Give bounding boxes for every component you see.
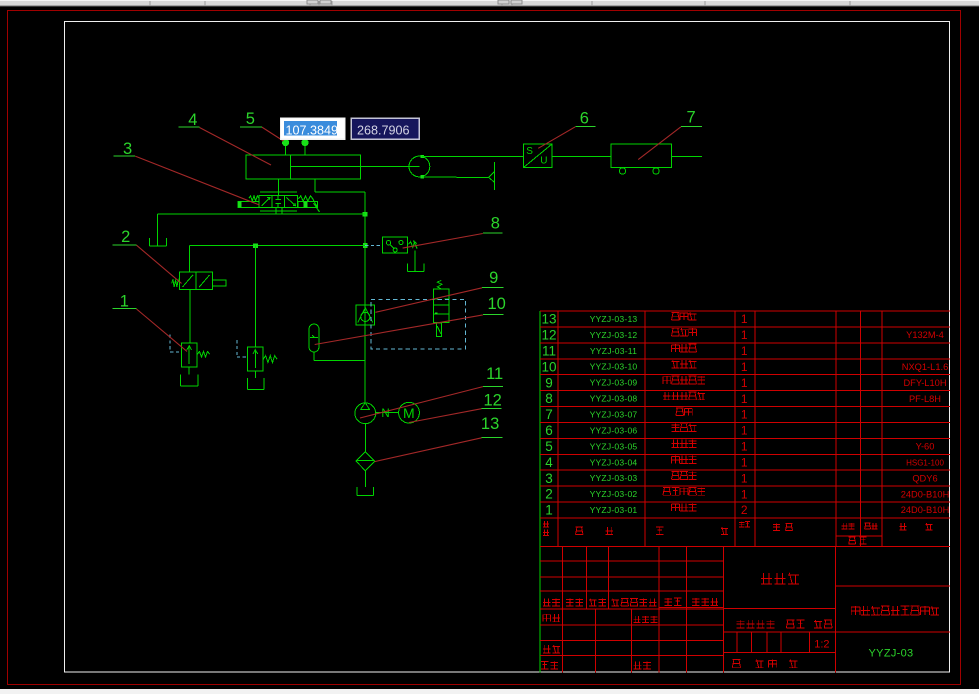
cylinder port grip dot A (item 5 sensor)	[283, 140, 289, 156]
label 7 leader	[638, 127, 681, 160]
svg-text:YYZJ-03: YYZJ-03	[869, 647, 914, 659]
relief valve V1b	[248, 347, 264, 371]
belt top line to right	[422, 155, 702, 157]
oil filter (item 13)	[356, 452, 375, 471]
table row 11	[542, 343, 748, 358]
svg-text:U: U	[540, 155, 547, 166]
parts table grid	[540, 311, 950, 547]
filter tank drop	[364, 471, 366, 487]
svg-text:1: 1	[741, 424, 748, 438]
svg-text:2: 2	[121, 228, 130, 246]
svg-text:QDY6: QDY6	[912, 473, 937, 483]
svg-text:YYZJ-03-12: YYZJ-03-12	[590, 330, 638, 340]
svg-text:Y132M-4: Y132M-4	[906, 330, 944, 340]
title block left texts	[541, 598, 724, 669]
svg-text:11: 11	[542, 343, 556, 358]
svg-text:268.7906: 268.7906	[357, 124, 410, 138]
svg-text:1: 1	[741, 408, 748, 422]
drawing title text	[851, 606, 860, 615]
valve V2 spring	[172, 280, 180, 287]
label 1	[113, 293, 137, 311]
svg-text:5: 5	[545, 439, 553, 454]
svg-text:1: 1	[741, 328, 748, 342]
hydraulic cylinder C (item 4) body	[246, 155, 361, 179]
table row 4	[545, 455, 944, 470]
svg-text:24D0-B10H: 24D0-B10H	[901, 505, 950, 515]
accumulator drop	[313, 352, 315, 360]
svg-text:7: 7	[545, 407, 553, 422]
V1 tank drop	[188, 367, 190, 375]
status strip (bottom)	[0, 689, 979, 694]
label 4 leader	[200, 128, 272, 166]
relay plunger and seat	[407, 251, 424, 272]
junction dot J3	[253, 243, 258, 248]
svg-text:YYZJ-03-10: YYZJ-03-10	[590, 362, 638, 372]
table row 13	[541, 312, 747, 327]
label 13 leader	[375, 438, 482, 462]
svg-text:NXQ1-L1.6: NXQ1-L1.6	[902, 362, 949, 372]
label 11 leader	[360, 387, 483, 418]
svg-text:YYZJ-03-04: YYZJ-03-04	[590, 457, 638, 467]
dynamic input box X value	[281, 118, 346, 139]
dashed enclosure box	[371, 299, 466, 349]
proportional relief valve (in dashed box)	[434, 289, 450, 323]
label 2 leader	[137, 245, 182, 283]
cylinder port grip dot B	[302, 140, 308, 156]
accumulator (item 10)	[309, 324, 319, 352]
svg-text:4: 4	[545, 455, 553, 470]
svg-text:1: 1	[741, 344, 748, 358]
svg-text:13: 13	[481, 415, 499, 433]
table row 1	[545, 503, 949, 518]
svg-text:N: N	[381, 408, 389, 420]
svg-text:YYZJ-03-02: YYZJ-03-02	[590, 489, 638, 499]
relay spring	[409, 240, 418, 248]
branch pipe (pilot line)	[189, 245, 365, 247]
table row 12	[541, 327, 943, 342]
svg-text:1: 1	[741, 455, 748, 469]
svg-text:10: 10	[488, 295, 506, 313]
label 6 leader	[538, 127, 575, 149]
title block grid	[540, 547, 950, 673]
valve right spring	[298, 196, 312, 201]
svg-text:5: 5	[246, 110, 255, 128]
svg-text:YYZJ-03-07: YYZJ-03-07	[590, 410, 638, 420]
hydraulic pump (item 11)	[355, 403, 376, 424]
svg-text:M: M	[403, 405, 415, 421]
svg-text:S: S	[526, 146, 533, 157]
V1 pilot dashed line	[170, 335, 181, 352]
label 2	[113, 228, 137, 246]
svg-text:1: 1	[741, 440, 748, 454]
svg-text:YYZJ-03-08: YYZJ-03-08	[590, 394, 638, 404]
svg-text:YYZJ-03-11: YYZJ-03-11	[590, 346, 637, 356]
svg-text:YYZJ-03-03: YYZJ-03-03	[590, 473, 638, 483]
main riser (pressure line)	[364, 192, 366, 403]
V1b pilot dashed line	[237, 340, 248, 357]
table row 5	[545, 439, 934, 454]
label 13	[481, 415, 502, 438]
svg-text:HSG1-100: HSG1-100	[906, 458, 944, 467]
svg-text:9: 9	[545, 375, 553, 390]
prop valve top spring	[437, 280, 442, 289]
svg-text:107.3849: 107.3849	[286, 124, 339, 138]
label 9 leader	[375, 288, 482, 313]
wire valve bottom stub b	[281, 208, 283, 215]
valve left solenoid	[238, 201, 259, 207]
prop valve lower body	[437, 323, 442, 337]
svg-text:PF-L8H: PF-L8H	[909, 394, 941, 404]
wire cylinder right port down	[314, 179, 316, 192]
sensor S/U box U6 (item 6)	[524, 144, 553, 168]
svg-text:1: 1	[741, 487, 748, 501]
label 1 leader	[137, 309, 188, 351]
tank symbol T2	[180, 375, 198, 387]
wire cylinder left port to valve	[278, 179, 280, 196]
table row 3	[545, 471, 937, 486]
svg-text:YYZJ-03-05: YYZJ-03-05	[590, 441, 638, 451]
relief valve V1 (item 1)	[182, 343, 198, 367]
shut-off valve V2 (item 2)	[180, 272, 226, 289]
svg-text:13: 13	[541, 312, 556, 327]
piston rod	[291, 166, 420, 168]
trolley box (item 7)	[611, 144, 672, 174]
electric motor M (item 12)	[399, 402, 420, 423]
svg-text:7: 7	[687, 109, 696, 127]
svg-text:4: 4	[188, 111, 197, 129]
svg-text:1: 1	[741, 376, 748, 390]
label 8	[483, 214, 503, 233]
junction dot J2	[363, 243, 368, 248]
label 7	[681, 109, 702, 127]
valve right solenoid	[298, 197, 320, 213]
svg-text:1: 1	[741, 471, 748, 485]
label 10	[483, 295, 506, 314]
svg-text:2: 2	[545, 487, 553, 502]
svg-text:2: 2	[741, 503, 748, 517]
svg-text:6: 6	[545, 423, 553, 438]
V1b tank drop	[254, 371, 256, 378]
wire valve bottom stub a	[275, 208, 277, 215]
label 12	[482, 392, 502, 410]
label 12 leader	[409, 409, 482, 423]
junction dot J1	[363, 212, 368, 217]
svg-text:1: 1	[545, 503, 553, 518]
V1 spring	[197, 351, 209, 357]
svg-text:Y-60: Y-60	[916, 442, 935, 452]
parts table left green border	[539, 311, 541, 673]
wire J3 down to relief valve V1b	[254, 246, 256, 348]
label 6	[575, 110, 595, 128]
label 8 leader	[403, 234, 483, 249]
title block middle texts	[732, 573, 832, 668]
label 9	[482, 269, 503, 288]
svg-text:24D0-B10H: 24D0-B10H	[901, 489, 950, 499]
svg-text:12: 12	[484, 392, 502, 410]
label 5	[240, 110, 262, 128]
svg-text:1: 1	[120, 293, 129, 311]
svg-text:1:2: 1:2	[814, 638, 829, 650]
pulley circle	[409, 155, 430, 179]
label 3	[114, 140, 136, 158]
svg-text:11: 11	[486, 365, 503, 383]
label 10 leader	[315, 315, 483, 345]
svg-text:12: 12	[541, 327, 556, 342]
table row 9	[545, 375, 946, 390]
svg-text:1: 1	[741, 312, 748, 326]
svg-text:YYZJ-03-01: YYZJ-03-01	[590, 505, 638, 515]
dynamic input box Y value	[351, 118, 419, 139]
wire right port to main riser	[315, 191, 365, 193]
pilot-operated check valve (item 9)	[356, 305, 375, 325]
toolbar strip (top window chrome)	[0, 0, 979, 7]
dashed pilot wire to pressure switch	[365, 245, 382, 247]
label 5 leader	[262, 127, 284, 141]
svg-text:10: 10	[541, 359, 556, 374]
svg-text:9: 9	[489, 269, 498, 287]
svg-text:6: 6	[580, 110, 589, 128]
label 4	[179, 111, 200, 129]
label 11	[483, 365, 503, 386]
svg-text:1: 1	[741, 392, 748, 406]
svg-text:YYZJ-03-13: YYZJ-03-13	[590, 314, 638, 324]
pressure relay box (item 8)	[382, 237, 407, 253]
svg-text:1: 1	[741, 360, 748, 374]
svg-text:YYZJ-03-06: YYZJ-03-06	[590, 425, 638, 435]
table row 8	[545, 391, 941, 406]
table row 2	[545, 487, 949, 502]
belt anchor arrow	[489, 162, 495, 190]
wire tank drop	[157, 214, 159, 246]
return pipe to tank	[158, 213, 365, 215]
parts table header row	[543, 521, 933, 544]
pump-motor shaft with N	[376, 408, 399, 420]
tank symbol T3	[248, 378, 264, 389]
table row 6	[545, 423, 748, 438]
suction pipe	[364, 424, 366, 452]
tank symbol T1	[150, 238, 167, 246]
V1b spring	[263, 356, 277, 363]
tank symbol T4	[357, 487, 374, 496]
svg-text:YYZJ-03-09: YYZJ-03-09	[590, 378, 638, 388]
svg-text:DFY-L10H: DFY-L10H	[903, 378, 946, 388]
svg-text:3: 3	[545, 471, 553, 486]
belt bottom line	[422, 176, 488, 178]
accumulator pipe to riser	[314, 359, 365, 361]
wire down to shut-off valve	[188, 246, 190, 273]
table row 7	[545, 407, 748, 422]
solenoid directional valve V3 (item 3)	[259, 192, 297, 211]
table row 10	[541, 359, 948, 374]
valve left spring	[249, 196, 259, 201]
svg-text:8: 8	[545, 391, 553, 406]
svg-text:8: 8	[491, 214, 500, 232]
label 3 leader	[135, 156, 259, 205]
wire V2 to relief valve	[189, 290, 191, 343]
